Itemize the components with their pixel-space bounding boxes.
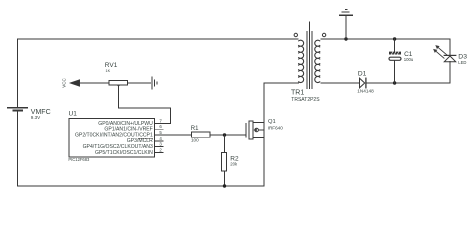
wire RV1 right to ground (128, 82, 151, 84)
capacitor C1 (polarized) (389, 39, 401, 83)
transformer TR1 secondary winding (315, 40, 320, 82)
svg-text:U1: U1 (69, 110, 78, 117)
potentiometer RV1 (109, 81, 128, 87)
wire TR1 secondary bottom to D1 (321, 82, 360, 84)
LED D3 (433, 45, 456, 62)
pin GP1/AN1/CIN-/VREF (104, 127, 163, 133)
node junction R1/R2/gate (223, 133, 226, 136)
transformer TR1 core (307, 22, 312, 89)
node junction R2/bottom rail (223, 184, 226, 187)
wire RV1 wiper to U1 pin 7 (119, 87, 171, 124)
svg-text:Q1: Q1 (268, 119, 276, 125)
svg-text:R1: R1 (191, 126, 199, 132)
svg-text:20k: 20k (230, 162, 238, 167)
svg-text:TRSAT2P2S: TRSAT2P2S (291, 97, 320, 103)
pin GP3/MCLR (127, 138, 163, 144)
svg-text:6: 6 (159, 124, 162, 129)
svg-text:100u: 100u (404, 57, 414, 62)
ground (right of RV1) (152, 77, 157, 89)
wire right rail top to D3 (449, 39, 451, 55)
svg-text:VCC: VCC (62, 78, 67, 88)
IC U1 (PIC12F683 microcontroller) (69, 119, 155, 158)
svg-text:100: 100 (191, 138, 199, 143)
svg-text:D1: D1 (358, 70, 367, 77)
pin GP2/T0CKI/INT/AN2/COUT/CCP1 (75, 132, 163, 138)
wire top rail right (TR1 secondary top to right rail) (321, 38, 450, 40)
svg-text:9.3V: 9.3V (31, 115, 41, 120)
wire TR1 primary bottom stub (264, 82, 298, 84)
svg-text:PIC12F683: PIC12F683 (68, 157, 90, 162)
transistor Q1 (IRF640 MOSFET) (246, 121, 264, 139)
wire R2 to bottom rail (224, 171, 226, 186)
pin GP5/T1CKI/OSC1/CLKIN (95, 150, 163, 156)
svg-text:4: 4 (159, 136, 162, 141)
wire Q1 source to bottom rail (263, 138, 265, 187)
battery VMFC (8, 108, 28, 111)
svg-text:1N4148: 1N4148 (357, 89, 374, 94)
wire U1 pin5 to R1 (163, 134, 192, 136)
wire R1 to Q1 gate (210, 134, 246, 136)
TR1 secondary phase dot (322, 33, 325, 36)
ground (top, on secondary rail) (340, 10, 353, 41)
svg-text:GP5/T1CKI/OSC1/CLKIN: GP5/T1CKI/OSC1/CLKIN (95, 150, 153, 156)
svg-text:7: 7 (159, 118, 162, 123)
wire VCC to RV1 left (80, 82, 109, 84)
svg-text:IRF640: IRF640 (268, 126, 284, 131)
power VCC (62, 78, 80, 88)
diode D1 (360, 78, 366, 88)
TR1 primary phase dot (294, 33, 297, 36)
resistor R2 (222, 152, 227, 171)
wire top rail left (battery to TR1 primary top) (18, 38, 299, 40)
transformer TR1 primary winding (299, 40, 304, 82)
resistor R1 (192, 132, 211, 137)
node junction C1 bottom / output line (393, 81, 396, 84)
pin GP4/T1G/OSC2/CLKOUT/AN3 (83, 144, 163, 150)
wire battery - down to bottom rail (17, 111, 19, 186)
svg-text:TR1: TR1 (291, 90, 304, 97)
node junction C1 top / top rail (393, 37, 396, 40)
svg-text:LED: LED (458, 60, 466, 65)
svg-text:1K: 1K (106, 69, 111, 73)
svg-text:2: 2 (159, 147, 162, 152)
wire D1 cathode to right rail (366, 82, 450, 84)
wire Q1 drain up to TR1 primary bottom (263, 83, 265, 123)
wire D3 cathode down to output line (449, 62, 451, 83)
svg-text:3: 3 (159, 142, 162, 147)
svg-text:5: 5 (159, 130, 162, 135)
pin GP0/AN0/CIN+/ULPWU (98, 121, 163, 127)
wire junction down to R2 (224, 135, 226, 153)
wire bottom rail (18, 185, 265, 187)
wire left rail (top rail down to battery +) (17, 39, 19, 107)
